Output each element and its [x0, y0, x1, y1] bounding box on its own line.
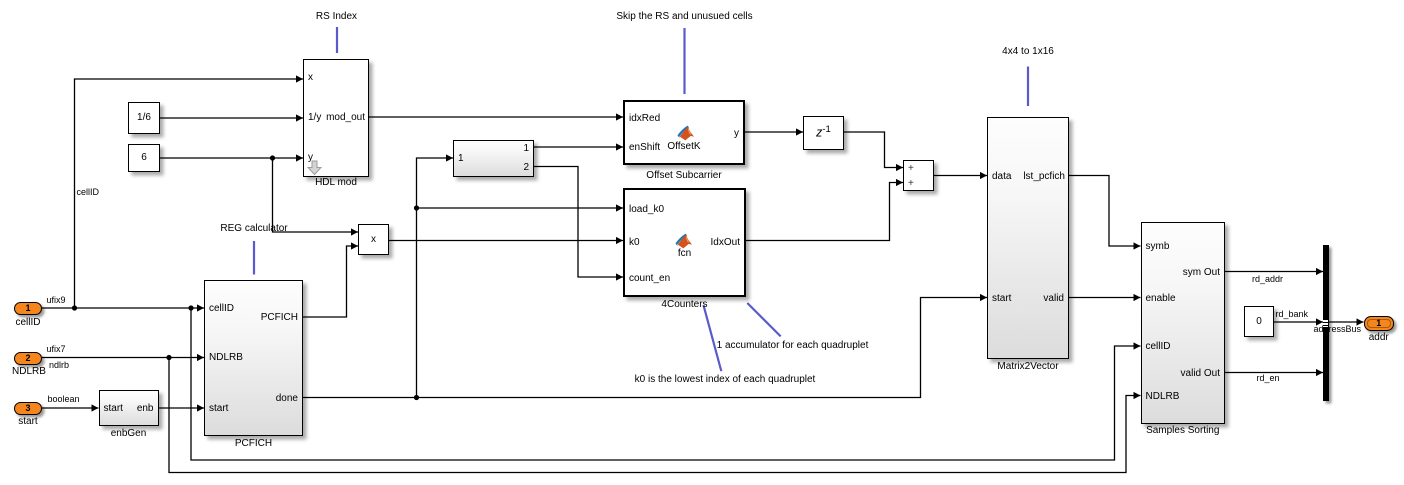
- constant 6: [128, 144, 160, 172]
- block Samples Sorting: [1141, 222, 1226, 424]
- wire delay to sum in1: [844, 132, 903, 168]
- block delay Z-1: [803, 116, 844, 150]
- inport 3 start: [14, 402, 42, 415]
- product block x: [358, 224, 389, 255]
- annotation line 1 accumulator: [747, 303, 780, 336]
- wire product out to k0: [389, 240, 623, 242]
- wire sum out to data: [934, 175, 987, 177]
- junction node NDLRB branch: [166, 355, 171, 360]
- icon update diagram (gray down arrow): [307, 160, 322, 176]
- label addressBus (under bus bar): [1314, 325, 1362, 334]
- inport 2 NDLRB: [14, 352, 42, 365]
- label Offset Subcarrier: [623, 171, 745, 181]
- bus creator icon: [1323, 319, 1328, 328]
- wire done to Matrix2Vector start: [303, 298, 987, 398]
- wire label cellID: [77, 188, 100, 197]
- annotation REG calculator: [214, 224, 294, 234]
- wire enb to PCFICH start: [159, 407, 205, 409]
- wire PCFICH out to product in2: [303, 246, 358, 317]
- block Offset Subcarrier (MATLAB function OffsetK): [623, 100, 745, 165]
- annotation line 4x4 to 1x16: [1027, 67, 1029, 107]
- wire subsystem out1 to enShift: [534, 146, 623, 148]
- annotation 4x4 to 1x16: [988, 47, 1068, 57]
- wire bus to addr: [1329, 321, 1364, 323]
- wire label ndlrb: [49, 361, 69, 370]
- annotation line RS Index: [336, 27, 338, 53]
- block PCFICH: [204, 280, 303, 436]
- outport 1 addr: [1364, 316, 1395, 331]
- wire 1/6 to HDL mod 1/y: [160, 117, 303, 119]
- wire cellID branch down to Samples Sorting: [191, 308, 1141, 460]
- junction node load_k0 branch: [414, 205, 419, 210]
- wire label ufix9: [47, 296, 66, 305]
- label PCFICH: [204, 439, 303, 449]
- wire 6 branch to product in1: [273, 158, 359, 232]
- annotation Skip the RS and unusued cells: [585, 12, 785, 22]
- wire 6 to HDL mod y: [160, 157, 303, 159]
- subsystem 1-to-2: [453, 140, 534, 177]
- wire sym Out to bus: [1225, 271, 1323, 273]
- wire rd_bank 0 to bus: [1274, 321, 1323, 323]
- junction node cellID/HDLmod-x: [72, 305, 77, 310]
- annotation line k0 lowest: [704, 305, 722, 371]
- label Matrix2Vector: [987, 362, 1069, 372]
- icon MATLAB logo: [675, 233, 693, 250]
- block HDL mod: [303, 59, 369, 177]
- annotation RS Index: [297, 12, 377, 22]
- wire cellID branch up to HDL mod x: [75, 79, 304, 308]
- wire valid Out to bus: [1225, 372, 1323, 374]
- wire subsystem out2 to count_en: [534, 167, 623, 278]
- wire NDLRB branch down to Samples Sorting: [169, 358, 1141, 473]
- wire label rd_en: [1257, 374, 1280, 383]
- wire label rd_addr: [1252, 275, 1283, 284]
- wire label ufix7: [47, 345, 66, 354]
- junction node 6-wire branch: [270, 155, 275, 160]
- label HDL mod: [303, 178, 369, 188]
- wire valid to enable: [1069, 297, 1141, 299]
- label Samples Sorting: [1141, 426, 1226, 436]
- bus creator bar: [1323, 245, 1329, 401]
- arrowheads: [197, 304, 204, 311]
- wire IdxOut to sum in2: [746, 183, 903, 241]
- block enbGen: [99, 390, 159, 426]
- wire start port3 to enbGen: [42, 407, 99, 409]
- constant 1/6: [128, 102, 160, 134]
- wire cellID port1 to PCFICH: [42, 307, 204, 309]
- annotation 1 accumulator for each quadruplet: [713, 341, 873, 351]
- constant 0: [1244, 306, 1274, 337]
- wire OffsetK y to delay: [745, 131, 803, 133]
- annotation k0 is the lowest index of each quadruplet: [630, 375, 820, 385]
- label 4Counters: [623, 300, 746, 310]
- sum block: [903, 160, 934, 191]
- wire label rd_bank: [1276, 310, 1309, 319]
- label enbGen: [99, 429, 159, 439]
- annotation line REG calculator: [253, 241, 255, 275]
- wire done branch to load_k0: [417, 207, 624, 209]
- junction node done branch: [414, 395, 419, 400]
- wire lst_pcfich to symb: [1069, 176, 1141, 247]
- wire done branch up to subsystem in1: [417, 158, 454, 398]
- wire mod_out to idxRed: [369, 116, 623, 118]
- icon MATLAB logo: [677, 125, 695, 142]
- inport 1 cellID: [14, 302, 42, 315]
- wire label boolean: [48, 395, 80, 404]
- block 4Counters (MATLAB function fcn): [623, 188, 746, 297]
- annotation line Skip the RS: [683, 28, 685, 94]
- wire NDLRB port2 to PCFICH: [42, 357, 204, 359]
- junction node cellID/SamplesSorting: [188, 305, 193, 310]
- block Matrix2Vector: [987, 117, 1069, 359]
